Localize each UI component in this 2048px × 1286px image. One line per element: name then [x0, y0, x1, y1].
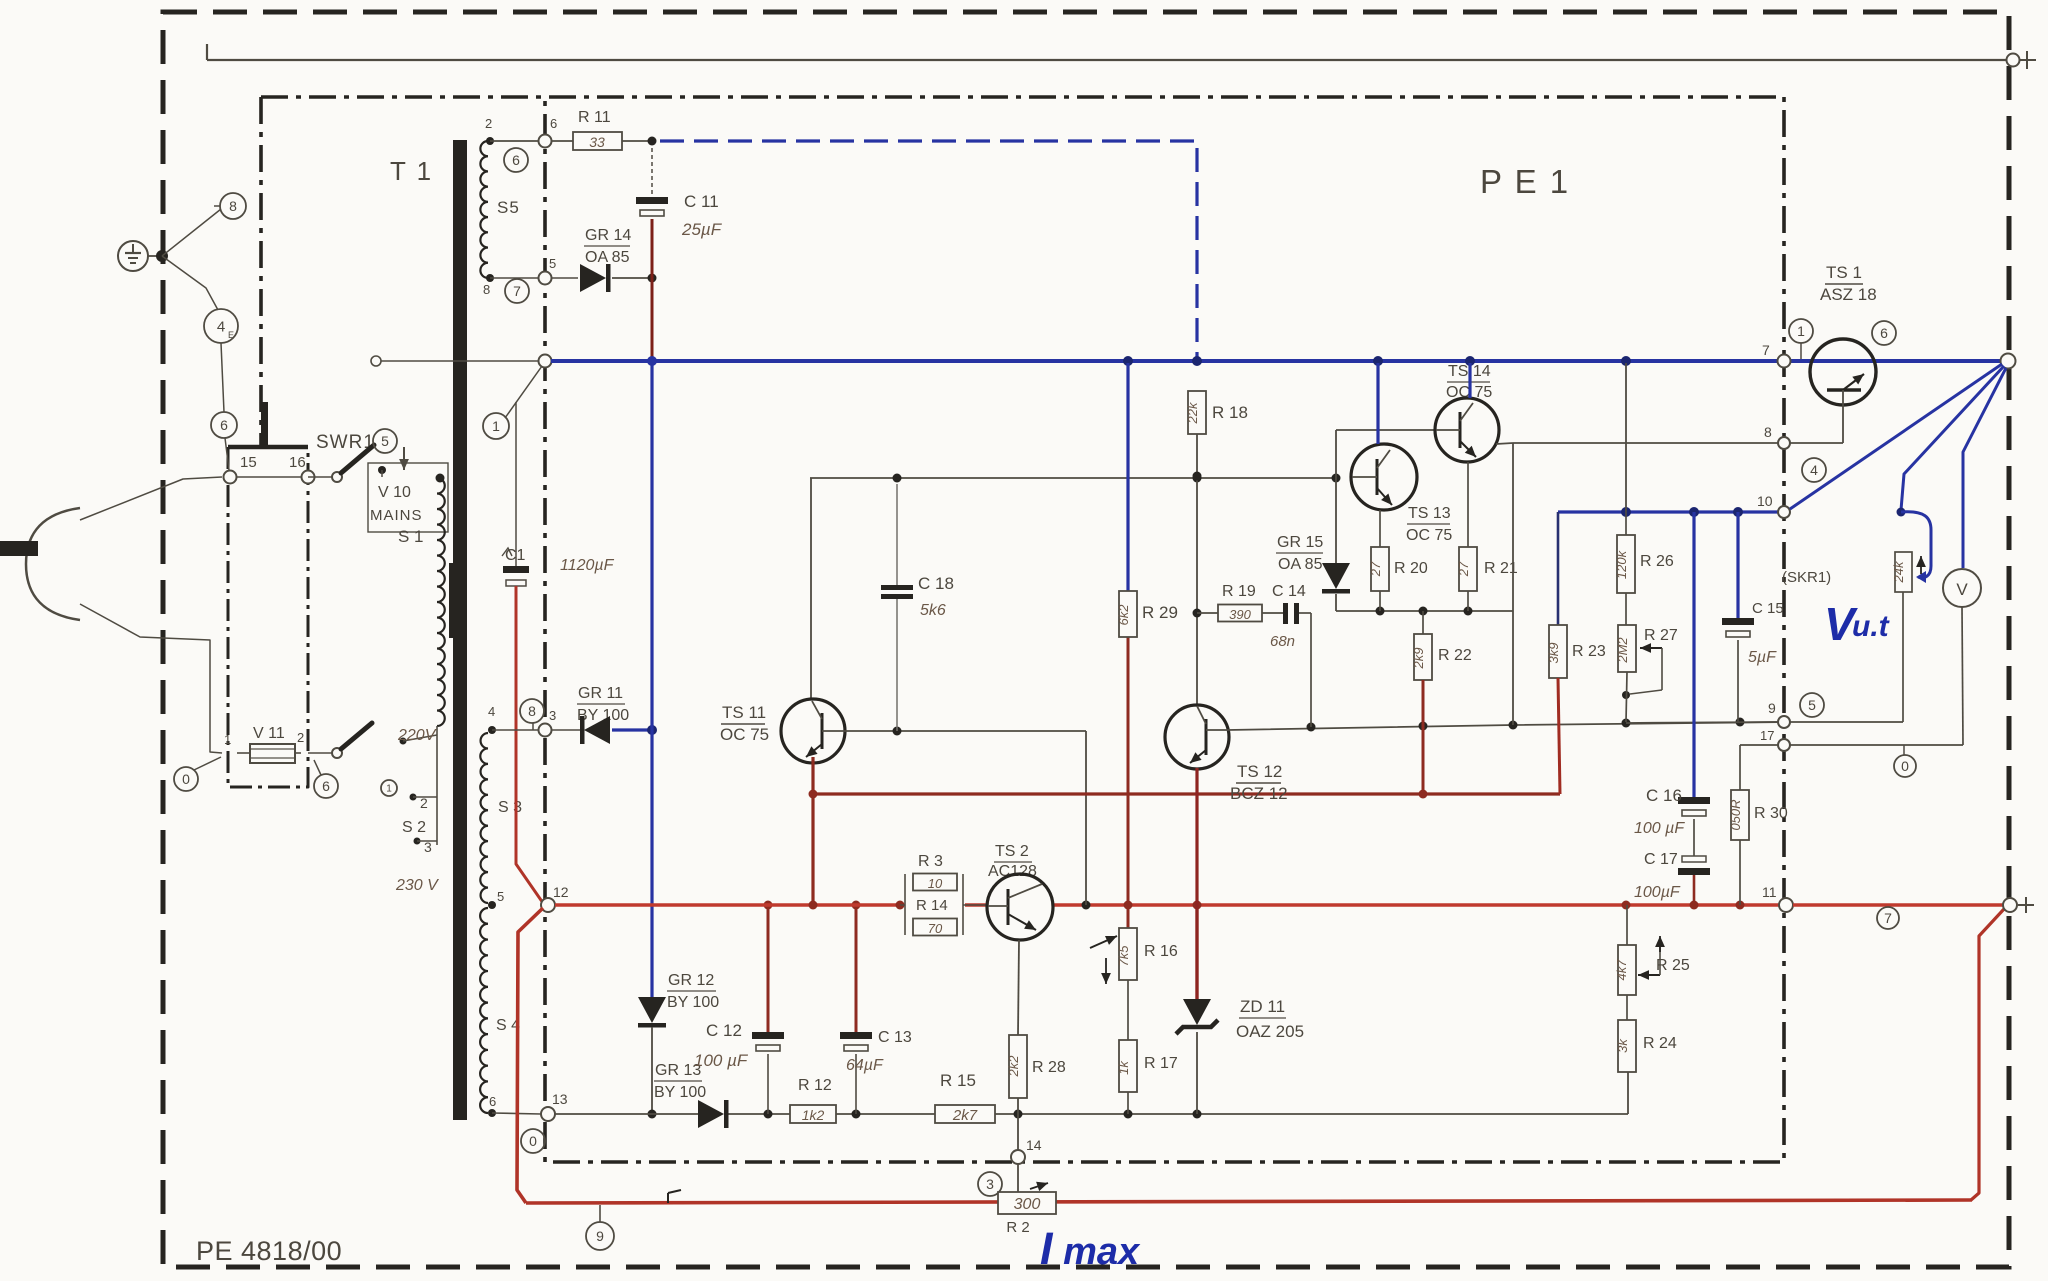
terminal 8 node [1778, 437, 1790, 449]
terminal 12 node [541, 898, 555, 912]
capacitor C15 [1736, 512, 1739, 618]
zener ZD11 [1195, 905, 1198, 999]
svg-text:R 25: R 25 [1656, 957, 1690, 974]
terminal 15 [224, 471, 237, 484]
svg-text:15: 15 [240, 454, 257, 471]
svg-text:GR 15: GR 15 [1277, 534, 1323, 551]
svg-text:7: 7 [513, 283, 521, 299]
svg-text:12: 12 [553, 884, 569, 900]
svg-text:3: 3 [424, 839, 432, 855]
svg-text:OC 75: OC 75 [720, 725, 769, 744]
trimmer R16 [1119, 928, 1137, 980]
svg-text:10: 10 [928, 876, 943, 891]
thin stub left of bus [380, 360, 539, 362]
svg-text:6: 6 [512, 152, 520, 168]
capacitor C18 [896, 484, 898, 585]
svg-text:68n: 68n [1270, 633, 1295, 650]
big right node [2001, 354, 2016, 369]
wire S3 top to node3 [492, 729, 539, 731]
wire TS2 base to R28 [1018, 940, 1019, 1035]
wire TS1 base [1842, 404, 1844, 443]
capacitor C11 [651, 148, 653, 197]
resistor R21 [1467, 462, 1469, 547]
svg-text:230 V: 230 V [395, 877, 439, 894]
svg-text:TS 2: TS 2 [995, 843, 1029, 860]
right node 11 circle [2003, 898, 2017, 912]
svg-text:ASZ 18: ASZ 18 [1820, 285, 1877, 304]
svg-text:E: E [228, 330, 234, 340]
wire C11 to bus [651, 219, 654, 278]
svg-text:2k9: 2k9 [1411, 648, 1426, 670]
connector circle 3 [978, 1172, 1002, 1196]
node 9 line [1626, 722, 1778, 723]
svg-text:8: 8 [528, 703, 536, 719]
svg-text:8: 8 [1764, 424, 1772, 440]
svg-text:S 1: S 1 [398, 527, 424, 546]
terminal 13 node [541, 1107, 555, 1121]
svg-text:C 15: C 15 [1752, 600, 1784, 617]
connector circle 1 [483, 413, 509, 439]
svg-text:OA 85: OA 85 [585, 249, 630, 266]
connector circle 7 (S5) [505, 279, 529, 303]
connector circle 5 arrow [373, 429, 397, 453]
winding S4 [480, 908, 488, 1113]
svg-text:9: 9 [596, 1228, 604, 1244]
blue fan to V meter [1963, 368, 2006, 568]
blue drop TS14 [1468, 363, 1471, 398]
svg-text:7: 7 [1884, 910, 1892, 926]
voltmeter V [1943, 569, 1981, 607]
svg-text:8: 8 [229, 198, 237, 214]
svg-text:1: 1 [386, 784, 392, 795]
svg-text:R 22: R 22 [1438, 647, 1472, 664]
wire line13 [492, 1113, 541, 1114]
svg-text:5: 5 [497, 889, 504, 904]
node 10 line blue [1558, 510, 1781, 513]
V11 fuse-holder dash-dot box [228, 447, 308, 787]
svg-text:6: 6 [322, 778, 330, 794]
svg-text:R 2: R 2 [1006, 1219, 1029, 1236]
wire node14 to R2 [1017, 1164, 1019, 1192]
svg-text:R 12: R 12 [798, 1077, 832, 1094]
svg-text:10: 10 [1757, 493, 1773, 509]
svg-text:4: 4 [1810, 462, 1818, 478]
plug wire lower [80, 604, 222, 753]
svg-text:I max: I max [1040, 1223, 1141, 1274]
switch S2 pole [332, 748, 342, 758]
connector circle 1b [1789, 319, 1813, 343]
svg-text:3k: 3k [1615, 1038, 1630, 1053]
wire TS11 base [845, 730, 1086, 732]
blue fan to SKR1 [1901, 366, 2004, 510]
svg-text:TS 1: TS 1 [1826, 263, 1862, 282]
terminal 14 node [1011, 1150, 1025, 1164]
connector circle 5b [1800, 693, 1824, 717]
wire S5 bottom [490, 277, 539, 279]
svg-text:70: 70 [928, 921, 943, 936]
wire node17 [1740, 744, 1778, 746]
svg-text:S5: S5 [497, 198, 520, 217]
terminal 7 node [1778, 355, 1791, 368]
svg-text:100 µF: 100 µF [1634, 820, 1685, 837]
trimmer R25 [1626, 905, 1628, 945]
tick on bottom rail [667, 1193, 669, 1203]
wire connector6 to terminal 15 [225, 438, 229, 470]
svg-text:7k5: 7k5 [1116, 945, 1131, 967]
red drop from node12 to bottom rail [517, 908, 543, 1203]
capacitor C17 [1693, 819, 1695, 856]
svg-text:33: 33 [589, 134, 605, 150]
svg-text:27: 27 [1456, 561, 1471, 577]
svg-text:C 12: C 12 [706, 1021, 742, 1040]
svg-text:OA 85: OA 85 [1278, 556, 1323, 573]
svg-text:BY 100: BY 100 [654, 1084, 706, 1101]
svg-text:AC128: AC128 [988, 863, 1037, 880]
svg-text:2: 2 [485, 116, 492, 131]
svg-text:GR 14: GR 14 [585, 227, 631, 244]
svg-text:C 11: C 11 [684, 192, 719, 211]
earth symbol circle [118, 241, 148, 271]
winding S3 [480, 733, 488, 903]
svg-text:R 15: R 15 [940, 1071, 976, 1090]
svg-text:1k: 1k [1116, 1060, 1131, 1075]
blue drop TS13 [1376, 363, 1379, 444]
terminal 16 [302, 471, 315, 484]
wire R17 down [1127, 1092, 1129, 1114]
svg-text:2M2: 2M2 [1615, 637, 1630, 664]
wire S5 top to R11 [490, 140, 539, 142]
connector circle 6 (fuse) [314, 774, 338, 798]
resistor R30 [1739, 745, 1741, 790]
capacitor C12 [767, 905, 770, 1032]
rheostat R2 300 [998, 1192, 1056, 1214]
svg-text:5µF: 5µF [1748, 649, 1777, 666]
wire C1 red down [516, 586, 543, 903]
svg-text:6: 6 [489, 1094, 496, 1109]
svg-text:R 11: R 11 [578, 109, 611, 126]
resistor R24 [1626, 995, 1628, 1020]
svg-text:R 14: R 14 [916, 897, 948, 914]
switch SWR1 upper pole [332, 472, 342, 482]
terminal 1 node on border [539, 355, 552, 368]
resistor R20 [1379, 510, 1381, 547]
svg-text:u.t: u.t [1852, 610, 1891, 643]
connector circle 8 [220, 193, 246, 219]
svg-text:6: 6 [550, 116, 557, 131]
resistor R17 [1119, 1040, 1137, 1092]
svg-text:C 16: C 16 [1646, 786, 1682, 805]
svg-text:PE 4818/00: PE 4818/00 [196, 1236, 342, 1266]
svg-text:8: 8 [483, 282, 490, 297]
terminal 6 node [539, 135, 552, 148]
svg-text:14: 14 [1026, 1137, 1042, 1153]
svg-text:2: 2 [297, 730, 304, 745]
svg-text:R 20: R 20 [1394, 560, 1428, 577]
svg-text:V 10: V 10 [378, 484, 411, 501]
core screen bar [449, 563, 457, 638]
svg-text:ZD 11: ZD 11 [1240, 997, 1285, 1016]
svg-text:0: 0 [182, 771, 190, 787]
trimmer R27 [1625, 593, 1627, 625]
terminal 10 node [1778, 506, 1790, 518]
blue vertical GR11-GR12 [650, 365, 653, 997]
svg-text:1k2: 1k2 [802, 1107, 825, 1123]
svg-text:T 1: T 1 [390, 156, 433, 186]
wire base TS13 [1335, 430, 1337, 563]
top supply rail wire [207, 59, 2007, 61]
relay V10 box [368, 463, 448, 532]
svg-text:R 24: R 24 [1643, 1035, 1677, 1052]
transformer core [453, 140, 467, 1120]
svg-text:R 28: R 28 [1032, 1059, 1066, 1076]
svg-text:TS 12: TS 12 [1237, 762, 1282, 781]
svg-text:OC 75: OC 75 [1406, 527, 1452, 544]
svg-text:R 23: R 23 [1572, 643, 1606, 660]
svg-text:5: 5 [549, 256, 556, 271]
svg-text:9: 9 [1768, 700, 1776, 716]
svg-text:C 18: C 18 [918, 574, 954, 593]
wire TS11 collector [810, 478, 812, 699]
wire R18 to TS12 [1196, 434, 1198, 705]
svg-text:TS 11: TS 11 [722, 703, 766, 722]
connector circle 0 (mains) [174, 767, 198, 791]
wire R28 to node14 [1017, 1098, 1019, 1150]
svg-text:BY 100: BY 100 [667, 994, 719, 1011]
svg-text:R 29: R 29 [1142, 603, 1178, 622]
wire TS14 emitter to node8 [1496, 443, 1513, 444]
svg-text:S 2: S 2 [402, 819, 426, 836]
svg-text:R 16: R 16 [1144, 943, 1178, 960]
svg-text:5: 5 [381, 433, 389, 449]
red rail A [813, 792, 1560, 795]
terminal 17 node [1778, 739, 1790, 751]
heavy tick end of mains dash-dot [261, 402, 268, 447]
S2 contact 1 [400, 738, 407, 745]
svg-text:R 17: R 17 [1144, 1055, 1178, 1072]
cluster bottom line [1336, 610, 1513, 612]
R3 R14 parallel joins [904, 874, 906, 935]
resistor R29 [1126, 363, 1129, 591]
mains plug [26, 508, 80, 620]
svg-text:MAINS: MAINS [370, 507, 423, 524]
svg-text:0: 0 [1901, 758, 1909, 774]
junction blob on border [156, 250, 168, 262]
svg-text:390: 390 [1229, 607, 1251, 622]
R26 column [1625, 363, 1627, 512]
svg-text:13: 13 [552, 1091, 568, 1107]
svg-text:100µF: 100µF [1634, 884, 1681, 901]
connector circle 0b [521, 1129, 545, 1153]
connector circle 9 [586, 1222, 614, 1250]
svg-text:16: 16 [289, 454, 306, 471]
svg-text:25µF: 25µF [681, 220, 723, 239]
bottom red rail [526, 1200, 1972, 1203]
terminal 11 node [1779, 898, 1793, 912]
S2 winding lead [436, 726, 438, 845]
resistor R28 [1009, 1035, 1027, 1098]
terminal circle top right (+) [2007, 54, 2020, 67]
svg-text:V 11: V 11 [253, 725, 285, 742]
svg-text:V: V [1956, 580, 1968, 599]
connector circle 0c [1894, 755, 1916, 777]
svg-text:100 µF: 100 µF [694, 1051, 749, 1070]
main positive bus (blue) [551, 359, 2002, 363]
svg-text:2k2: 2k2 [1006, 1055, 1021, 1078]
wire TS12 emitter red [1195, 768, 1198, 905]
connector circle 8b [520, 699, 544, 723]
wire R16 R17 [1127, 980, 1129, 1040]
svg-text:(SKR1): (SKR1) [1782, 569, 1831, 586]
svg-text:4: 4 [217, 318, 225, 335]
svg-text:2: 2 [420, 795, 428, 811]
svg-text:C 14: C 14 [1272, 583, 1306, 600]
wire TS12 line to node9 [1228, 722, 1786, 730]
svg-text:R 19: R 19 [1222, 583, 1256, 600]
plug wire upper [80, 477, 222, 520]
S2 contact 3 [414, 838, 421, 845]
wire node9 to SKR1 [1790, 721, 1903, 723]
wire R29-R16 red [1127, 637, 1130, 928]
svg-text:5: 5 [1808, 697, 1816, 713]
svg-text:R 27: R 27 [1644, 627, 1678, 644]
connector circle 6 (S5) [504, 148, 528, 172]
svg-text:S 3: S 3 [498, 799, 522, 816]
svg-text:R 26: R 26 [1640, 553, 1674, 570]
red rail to right node [1793, 903, 2003, 906]
winding S5 [480, 141, 488, 278]
wire connector4 to connector6 [221, 343, 224, 412]
svg-text:3k9: 3k9 [1546, 643, 1561, 664]
svg-text:7: 7 [1762, 342, 1770, 358]
blue dashed feed to R18 [660, 141, 1197, 361]
svg-text:11: 11 [1762, 884, 1777, 900]
resistor R22 [1422, 611, 1424, 634]
terminal 3 node [539, 724, 552, 737]
svg-text:P E 1: P E 1 [1480, 163, 1570, 200]
svg-text:22k: 22k [1185, 401, 1200, 424]
PE1 module dash-dot border [261, 97, 1784, 1162]
svg-text:4: 4 [488, 704, 495, 719]
svg-text:17: 17 [1760, 728, 1774, 743]
connector circle 4e [204, 309, 238, 343]
svg-text:3: 3 [986, 1176, 994, 1192]
svg-text:C 13: C 13 [878, 1029, 912, 1046]
svg-text:6: 6 [220, 417, 228, 433]
svg-text:TS 13: TS 13 [1408, 505, 1451, 522]
terminal 9 node [1778, 716, 1790, 728]
svg-text:300: 300 [1014, 1196, 1041, 1213]
svg-text:BCZ 12: BCZ 12 [1230, 784, 1288, 803]
svg-text:1: 1 [224, 732, 231, 747]
svg-text:GR 11: GR 11 [578, 685, 623, 702]
svg-text:C 17: C 17 [1644, 851, 1678, 868]
S2 contact 2 [410, 794, 417, 801]
svg-text:2k7: 2k7 [952, 1107, 978, 1124]
connector circle 6 [211, 412, 237, 438]
connector circle 4b [1802, 458, 1826, 482]
svg-text:24k: 24k [1891, 560, 1906, 583]
primary winding S1 [437, 478, 445, 726]
svg-text:64µF: 64µF [846, 1057, 884, 1074]
resistor R18 [1188, 391, 1206, 434]
R23 column [1557, 512, 1560, 625]
svg-text:6: 6 [1880, 325, 1888, 341]
svg-text:220V: 220V [397, 727, 437, 744]
connector circle 7b [1877, 907, 1899, 929]
connector circle 6c [1872, 321, 1896, 345]
svg-text:1: 1 [492, 418, 500, 434]
wire 15-16 [237, 476, 301, 478]
svg-text:1: 1 [1797, 323, 1805, 339]
svg-text:GR 12: GR 12 [668, 972, 714, 989]
svg-text:4k7: 4k7 [1614, 959, 1629, 981]
svg-text:27: 27 [1368, 561, 1383, 577]
wire GR12 to line13 [651, 1027, 653, 1114]
wire blob to connector 8 [162, 209, 221, 256]
wire blob down to connector 4 [162, 256, 218, 310]
wire TS11 emitter red [811, 757, 814, 794]
svg-text:1120µF: 1120µF [560, 557, 615, 574]
svg-text:R 30: R 30 [1754, 805, 1788, 822]
capacitor C16 [1692, 512, 1695, 797]
svg-text:R 18: R 18 [1212, 403, 1248, 422]
svg-text:5k6: 5k6 [920, 602, 946, 619]
blue fan diag to node10 [1790, 364, 2002, 509]
svg-text:6k2: 6k2 [1116, 604, 1131, 626]
svg-text:0: 0 [529, 1133, 537, 1149]
red right-edge drop [1971, 909, 2004, 1200]
svg-text:3: 3 [549, 708, 556, 723]
red rail node12 [555, 903, 900, 907]
svg-text:120k: 120k [1614, 549, 1629, 579]
capacitor C13 [855, 905, 858, 1032]
svg-text:OAZ 205: OAZ 205 [1236, 1022, 1304, 1041]
svg-text:050R: 050R [1728, 799, 1743, 830]
svg-text:R 3: R 3 [918, 853, 943, 870]
terminal 5 node [539, 272, 552, 285]
